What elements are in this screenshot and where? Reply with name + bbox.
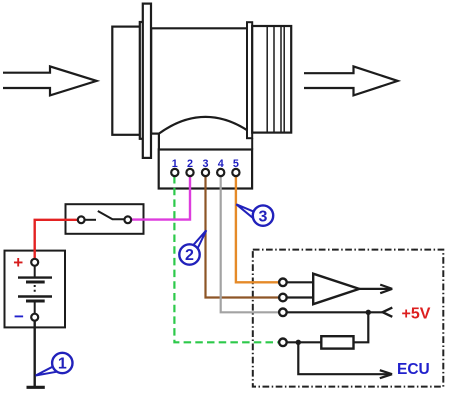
callout 3	[236, 204, 273, 226]
wire gray: pin 4 to ECU input 3	[221, 176, 280, 312]
switch S1 box	[66, 204, 144, 234]
wire black: battery - to ground	[34, 321, 36, 387]
MAF sensor outer mounting flange	[140, 22, 147, 139]
switch right contact	[124, 216, 131, 223]
wire green dashed: pin 1 to ECU input 4	[174, 176, 279, 342]
ECU output arrow	[298, 342, 392, 378]
ECU input terminal 1	[279, 279, 287, 287]
switch lever	[98, 211, 125, 219]
ECU enclosure (dash-dot box)	[253, 250, 443, 387]
svg-text:+5V: +5V	[402, 306, 431, 323]
svg-text:5: 5	[233, 158, 239, 170]
battery + label	[13, 253, 23, 272]
wire: terminal 1 to op-amp	[287, 281, 314, 283]
MAF sensor main body	[151, 28, 247, 133]
callout 2	[179, 230, 206, 264]
ground	[27, 386, 45, 389]
+5V supply arrowhead	[383, 308, 393, 317]
MAF sensor tall gasket flange	[143, 4, 151, 158]
pin 1	[171, 158, 178, 176]
pin 4	[217, 158, 224, 176]
battery B1 box	[5, 251, 66, 328]
op-amp U1	[313, 274, 359, 305]
wire: terminal 2 to op-amp	[287, 296, 314, 298]
+5V label	[402, 306, 431, 323]
pin 3	[202, 158, 209, 176]
battery - terminal	[31, 314, 38, 321]
wire red: battery + to switch	[35, 220, 78, 259]
svg-text:ECU: ECU	[397, 361, 430, 378]
pin 2	[186, 158, 193, 176]
pin 5	[232, 158, 239, 176]
ECU input terminal 2	[279, 294, 287, 302]
battery + terminal	[31, 259, 38, 266]
svg-text:3: 3	[202, 158, 208, 170]
op-amp output arrow	[359, 285, 392, 294]
svg-text:4: 4	[218, 158, 224, 170]
ECU input terminal 4	[279, 339, 287, 347]
MAF sensor outlet tube with ridges	[252, 26, 291, 133]
clamp collar ring	[247, 22, 252, 149]
battery - label	[14, 307, 24, 326]
sensor dome (connector arch)	[159, 117, 247, 150]
svg-text:2: 2	[185, 247, 194, 264]
ECU label	[397, 361, 430, 378]
switch left contact	[78, 216, 96, 223]
callout 1	[36, 353, 73, 376]
battery plates	[18, 266, 52, 314]
wire brown: pin 3 to ECU input 2	[206, 176, 280, 298]
airflow arrow (right outlet)	[304, 66, 398, 95]
ECU input terminal 3	[279, 309, 287, 317]
svg-text:−: −	[14, 307, 24, 326]
wire magenta: pin 2 to switch	[131, 176, 190, 220]
airflow arrow (left inlet)	[3, 66, 97, 95]
MAF sensor inlet tube	[112, 27, 141, 135]
connector housing	[159, 150, 252, 189]
svg-text:3: 3	[259, 208, 268, 225]
wire orange: pin 5 to ECU input 1	[236, 176, 279, 282]
svg-text:2: 2	[187, 158, 193, 170]
wire: terminal 3 (+5V rail)	[287, 311, 385, 313]
wire: resistor to +5V rail	[354, 312, 369, 342]
resistor R1	[321, 336, 353, 348]
svg-text:1: 1	[58, 356, 67, 373]
junction node on +5V rail	[366, 310, 371, 315]
svg-text:1: 1	[172, 158, 178, 170]
junction node after terminal 4	[287, 340, 322, 345]
svg-text:+: +	[13, 253, 23, 272]
